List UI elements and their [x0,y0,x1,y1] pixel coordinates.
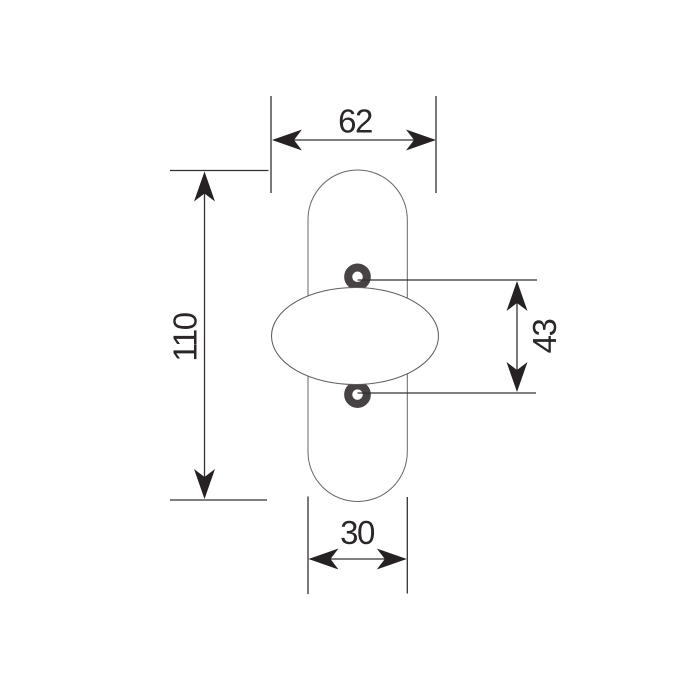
dim 110: top extension line [170,170,269,172]
knob (oval) [272,288,439,385]
dim 30: dimension line [310,558,405,560]
dim 43: dimension line [516,283,518,390]
dim 43: top arrowhead [507,281,528,311]
dim 62: left arrowhead [272,130,302,151]
svg-text:110: 110 [167,312,204,361]
dim 110: bottom extension line [170,499,267,501]
top screw hole [348,268,367,287]
dim 43: bottom arrowhead [507,362,528,392]
dim 30: left arrowhead [309,549,339,570]
dim 62: left extension line [270,96,272,193]
dim 62: dimension line [274,139,434,141]
svg-text:43: 43 [526,320,563,354]
dim 30: right extension line [406,497,408,594]
dim 43: top extension line [358,279,538,281]
dim 43: bottom extension line [358,392,537,394]
dim 110: dimension line [204,174,206,497]
dim 110: top arrowhead [194,172,215,202]
dim 62: right extension line [435,96,437,193]
bottom screw hole [348,385,367,404]
dim 30: left extension line [307,497,309,595]
dim 30: right arrowhead [377,549,407,570]
svg-text:62: 62 [338,103,372,140]
backplate outline (stadium shape) [308,170,407,502]
dim 62: right arrowhead [406,130,436,151]
dim 110: bottom arrowhead [194,469,215,499]
svg-text:30: 30 [340,514,375,551]
